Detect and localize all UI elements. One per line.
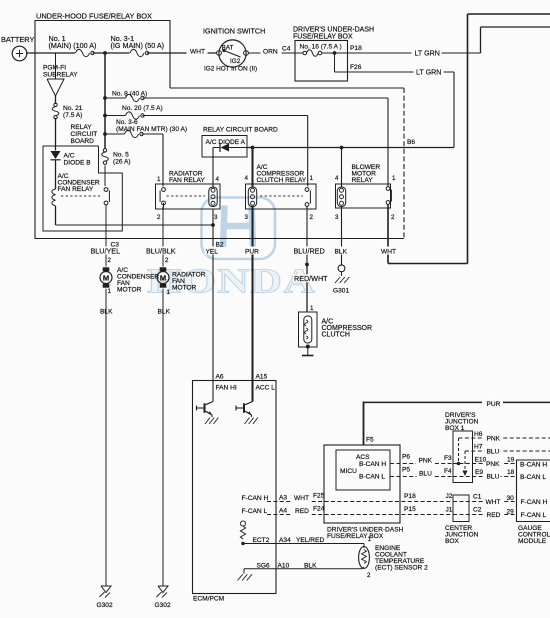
svg-text:30: 30 [507, 495, 515, 502]
svg-text:(7.5 A): (7.5 A) [63, 112, 82, 119]
svg-text:BLK: BLK [100, 309, 113, 316]
svg-text:RED: RED [295, 508, 309, 515]
svg-text:F-CAN H: F-CAN H [242, 495, 269, 502]
svg-text:No. 3-6: No. 3-6 [116, 119, 138, 126]
svg-text:FAN RELAY: FAN RELAY [58, 186, 94, 193]
svg-text:FAN RELAY: FAN RELAY [169, 177, 205, 184]
svg-text:C1: C1 [473, 494, 482, 501]
svg-text:BLU/RED: BLU/RED [294, 247, 325, 256]
svg-text:ORN: ORN [263, 49, 278, 56]
svg-text:A4: A4 [279, 508, 287, 515]
svg-text:B-CAN L: B-CAN L [359, 474, 385, 481]
svg-text:4: 4 [216, 176, 220, 183]
svg-text:(MAIN) (100 A): (MAIN) (100 A) [49, 41, 97, 50]
svg-text:F24: F24 [313, 506, 325, 513]
svg-text:No. 16 (7.5 A ): No. 16 (7.5 A ) [300, 44, 342, 51]
svg-text:RELAY CIRCUIT BOARD: RELAY CIRCUIT BOARD [203, 127, 278, 134]
svg-text:CLUTCH: CLUTCH [322, 332, 350, 339]
svg-text:CLUTCH RELAY: CLUTCH RELAY [257, 177, 307, 184]
svg-text:ACC L: ACC L [256, 385, 276, 392]
svg-text:PNK: PNK [487, 436, 501, 443]
svg-text:SG6: SG6 [257, 562, 271, 569]
svg-text:P18: P18 [404, 493, 416, 500]
svg-text:RELAY: RELAY [71, 124, 93, 131]
svg-text:BLU: BLU [487, 474, 500, 481]
svg-text:3: 3 [214, 214, 218, 221]
svg-text:A/C: A/C [64, 153, 75, 160]
svg-text:MODULE: MODULE [518, 538, 547, 545]
svg-text:IG2: IG2 [230, 58, 241, 65]
svg-text:LT GRN: LT GRN [416, 69, 441, 77]
svg-text:1: 1 [310, 175, 314, 182]
svg-text:2: 2 [367, 572, 371, 579]
svg-text:No. 5: No. 5 [113, 152, 129, 159]
svg-text:BAT: BAT [222, 45, 234, 52]
svg-text:B-CAN H: B-CAN H [359, 461, 386, 468]
svg-text:WHT: WHT [190, 49, 205, 56]
svg-text:BLU/BLK: BLU/BLK [146, 247, 176, 256]
svg-text:18: 18 [507, 469, 515, 476]
svg-text:BLU/YEL: BLU/YEL [91, 247, 121, 256]
svg-text:LT GRN: LT GRN [415, 50, 440, 58]
svg-text:M: M [103, 273, 109, 282]
svg-text:ECT2: ECT2 [253, 537, 270, 544]
svg-text:1: 1 [167, 289, 171, 296]
svg-text:G301: G301 [333, 288, 349, 295]
svg-text:DRIVER'S UNDER-DASH: DRIVER'S UNDER-DASH [293, 27, 374, 34]
svg-text:BLK: BLK [335, 249, 348, 256]
svg-text:1: 1 [108, 288, 112, 295]
svg-text:2: 2 [157, 214, 161, 221]
svg-text:F4: F4 [444, 468, 452, 475]
svg-text:C2: C2 [473, 507, 482, 514]
svg-text:J2: J2 [446, 493, 453, 500]
svg-text:J1: J1 [446, 507, 453, 514]
svg-text:A6: A6 [216, 374, 224, 381]
svg-text:WHT: WHT [294, 495, 309, 502]
svg-text:BOX: BOX [445, 538, 460, 545]
svg-text:A15: A15 [256, 374, 268, 381]
svg-text:F3: F3 [444, 455, 452, 462]
svg-text:MOTOR: MOTOR [172, 285, 197, 292]
svg-text:H6: H6 [474, 431, 483, 438]
svg-text:1: 1 [310, 305, 314, 312]
svg-text:BATTERY: BATTERY [1, 35, 34, 44]
svg-text:B6: B6 [407, 139, 415, 146]
svg-text:1: 1 [157, 176, 161, 183]
svg-text:P15: P15 [404, 506, 416, 513]
svg-text:F26: F26 [350, 64, 362, 71]
svg-text:F-CAN H: F-CAN H [521, 499, 548, 506]
svg-text:1: 1 [392, 175, 396, 182]
svg-text:2: 2 [108, 257, 112, 264]
svg-text:IGNITION SWITCH: IGNITION SWITCH [203, 27, 265, 36]
svg-text:2: 2 [310, 214, 314, 221]
svg-text:(MAIN FAN MTR) (30 A): (MAIN FAN MTR) (30 A) [116, 126, 187, 133]
svg-text:F5: F5 [366, 437, 374, 444]
svg-text:DIODE B: DIODE B [64, 160, 92, 167]
svg-text:2: 2 [165, 257, 169, 264]
svg-text:E10: E10 [475, 457, 487, 464]
svg-text:PGM-FI: PGM-FI [43, 65, 66, 72]
svg-text:CIRCUIT: CIRCUIT [71, 131, 98, 138]
svg-text:BLK: BLK [304, 562, 317, 569]
svg-text:F25: F25 [313, 493, 325, 500]
svg-text:C4: C4 [282, 46, 291, 53]
svg-text:B-CAN L: B-CAN L [520, 474, 546, 481]
svg-text:BOARD: BOARD [71, 138, 95, 145]
svg-text:A/C DIODE A: A/C DIODE A [206, 139, 246, 146]
svg-text:BLK: BLK [158, 309, 171, 316]
svg-text:E9: E9 [475, 469, 483, 476]
svg-text:MICU: MICU [340, 468, 357, 475]
svg-text:P6: P6 [402, 454, 410, 461]
svg-text:P5: P5 [402, 467, 410, 474]
svg-text:No. 21: No. 21 [63, 105, 83, 112]
svg-text:A3: A3 [279, 495, 287, 502]
svg-text:RED: RED [487, 512, 501, 519]
svg-text:PNK: PNK [419, 458, 433, 465]
svg-text:FAN HI: FAN HI [216, 385, 237, 392]
svg-text:ECM/PCM: ECM/PCM [193, 596, 224, 603]
svg-text:BLU: BLU [419, 471, 432, 478]
svg-text:PNK: PNK [486, 461, 500, 468]
svg-text:YEL/RED: YEL/RED [296, 537, 324, 544]
svg-text:PUR: PUR [245, 249, 259, 256]
svg-text:F-CAN L: F-CAN L [242, 508, 268, 515]
svg-text:WHT: WHT [381, 249, 396, 256]
svg-text:A10: A10 [278, 562, 290, 569]
svg-text:19: 19 [507, 457, 515, 464]
svg-text:G302: G302 [155, 602, 171, 609]
svg-text:A34: A34 [279, 537, 291, 544]
svg-text:3: 3 [245, 214, 249, 221]
svg-text:3: 3 [335, 214, 339, 221]
svg-text:FUSE/RELAY BOX: FUSE/RELAY BOX [327, 533, 384, 540]
svg-text:29: 29 [507, 509, 515, 516]
svg-text:H7: H7 [474, 444, 483, 451]
svg-text:2: 2 [391, 214, 395, 221]
svg-text:ACS: ACS [356, 454, 370, 461]
svg-text:RED/WHT: RED/WHT [294, 274, 328, 283]
svg-text:RELAY: RELAY [352, 177, 374, 184]
svg-text:BLU: BLU [487, 449, 500, 456]
svg-text:FUSE/RELAY BOX: FUSE/RELAY BOX [293, 34, 353, 41]
svg-text:F-CAN L: F-CAN L [521, 512, 547, 519]
svg-text:UNDER-HOOD FUSE/RELAY BOX: UNDER-HOOD FUSE/RELAY BOX [36, 12, 152, 21]
svg-text:IG2 HOT in ON (II): IG2 HOT in ON (II) [204, 66, 257, 73]
svg-text:B2: B2 [216, 242, 224, 249]
svg-text:4: 4 [245, 175, 249, 182]
svg-text:SUBRELAY: SUBRELAY [43, 72, 78, 79]
svg-text:4: 4 [335, 175, 339, 182]
svg-text:PUR: PUR [487, 401, 501, 408]
svg-text:YEL: YEL [206, 249, 219, 256]
svg-text:M: M [160, 273, 166, 282]
svg-text:BOX 1: BOX 1 [445, 425, 465, 432]
svg-text:No. 8 (40 A): No. 8 (40 A) [112, 91, 147, 98]
svg-text:(26 A): (26 A) [113, 159, 131, 166]
svg-text:(IG MAIN) (50 A): (IG MAIN) (50 A) [111, 41, 165, 50]
svg-text:WHT: WHT [486, 499, 501, 506]
svg-text:G302: G302 [97, 602, 113, 609]
svg-text:B-CAN H: B-CAN H [520, 462, 547, 469]
svg-text:(ECT) SENSOR 2: (ECT) SENSOR 2 [375, 565, 428, 572]
svg-text:No. 20 (7.5 A): No. 20 (7.5 A) [122, 105, 163, 112]
svg-text:MOTOR: MOTOR [117, 287, 142, 294]
svg-text:P18: P18 [350, 45, 362, 52]
